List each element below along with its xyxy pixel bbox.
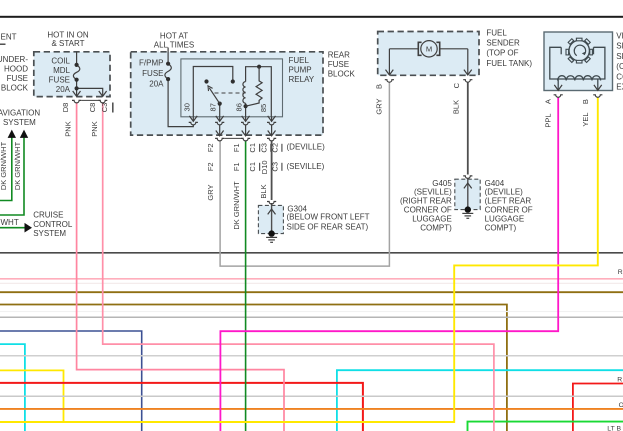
- svg-text:SE: SE: [616, 42, 623, 51]
- wire: green right corner: [468, 422, 623, 431]
- f/pmp fuse 20A: [165, 48, 193, 127]
- svg-text:20A: 20A: [149, 80, 164, 89]
- svg-text:COIL: COIL: [51, 57, 70, 66]
- relay coil pin 86: [245, 103, 247, 117]
- svg-text:O: O: [619, 402, 623, 409]
- svg-text:C3: C3: [271, 162, 280, 172]
- svg-text:M: M: [426, 45, 432, 54]
- svg-text:(SEVILLE): (SEVILLE): [287, 162, 325, 171]
- svg-text:EX: EX: [616, 83, 623, 92]
- svg-text:CONTROL: CONTROL: [33, 220, 73, 229]
- svg-text:C2: C2: [271, 143, 280, 153]
- wire: red bent down: [0, 383, 363, 431]
- svg-text:B: B: [581, 99, 590, 104]
- svg-text:CO: CO: [616, 72, 623, 81]
- svg-text:GRY: GRY: [375, 98, 384, 114]
- svg-text:YEL: YEL: [581, 112, 590, 126]
- svg-text:SE: SE: [616, 52, 623, 61]
- svg-text:REAR: REAR: [328, 51, 350, 60]
- svg-text:VE: VE: [616, 32, 623, 41]
- svg-text:NAVIGATION: NAVIGATION: [0, 109, 40, 118]
- svg-text:FUEL: FUEL: [486, 28, 507, 37]
- svg-text:85: 85: [259, 104, 268, 112]
- svg-text:C1: C1: [248, 162, 257, 172]
- wire PPL fuel pump A: [220, 97, 558, 431]
- svg-text:G404: G404: [485, 179, 505, 188]
- fuel pump housing and winding: [550, 47, 605, 90]
- svg-text:(DEVILLE): (DEVILLE): [287, 143, 326, 152]
- svg-text:COMPT): COMPT): [485, 223, 517, 232]
- svg-text:PPL: PPL: [543, 113, 552, 127]
- svg-text:COMPT): COMPT): [420, 223, 452, 232]
- svg-text:PUMP: PUMP: [289, 66, 312, 75]
- svg-text:86: 86: [235, 103, 244, 111]
- svg-text:UNDER-: UNDER-: [0, 55, 28, 64]
- connector bars next to labels: [260, 144, 282, 171]
- fuel pump module solid box: [544, 32, 613, 91]
- wire: red right corner: [573, 384, 623, 431]
- wire BLK fuel sender C to G405: [467, 82, 469, 174]
- svg-text:PNK: PNK: [90, 121, 99, 136]
- wire BLK relay 85 to G304: [271, 141, 273, 201]
- svg-text:G405: G405: [432, 179, 452, 188]
- wire DK GRN/WHT to navigation left: [0, 138, 12, 201]
- wire BLK G304 into ground box: [271, 203, 273, 234]
- svg-text:A: A: [543, 99, 552, 104]
- cruise control arrow: [25, 223, 33, 233]
- fuel pump relay inner box: [181, 59, 283, 117]
- svg-text:(SEVILLE): (SEVILLE): [414, 188, 452, 197]
- svg-text:(BELOW FRONT LEFT: (BELOW FRONT LEFT: [287, 212, 370, 221]
- relay switch arm pin 87: [219, 104, 221, 117]
- svg-text:DK GRN/WHT: DK GRN/WHT: [0, 141, 8, 190]
- svg-text:BLOCK: BLOCK: [328, 70, 356, 79]
- svg-text:BLK: BLK: [451, 100, 460, 114]
- fuel sender motor symbol: [421, 41, 437, 57]
- svg-text:CORNER OF: CORNER OF: [485, 206, 533, 215]
- ground G405 dashed box: [455, 179, 480, 209]
- svg-text:C3: C3: [259, 143, 268, 153]
- svg-text:B: B: [375, 84, 384, 89]
- svg-text:(RIGHT REAR: (RIGHT REAR: [400, 197, 452, 206]
- svg-text:ENT: ENT: [1, 33, 17, 42]
- svg-text:PNK: PNK: [64, 121, 73, 136]
- svg-text:LUGGAGE: LUGGAGE: [412, 214, 452, 223]
- svg-text:FUEL TANK): FUEL TANK): [486, 59, 532, 68]
- svg-text:& START: & START: [51, 39, 84, 48]
- wire YEL fuel pump B: [0, 97, 598, 422]
- wire: yellow short bent down: [0, 370, 64, 422]
- rear fuse block box: [131, 52, 323, 135]
- svg-text:(LEFT REAR: (LEFT REAR: [485, 197, 532, 206]
- wire: cyan right bent down: [337, 370, 623, 431]
- svg-text:C3: C3: [100, 103, 109, 113]
- connector bumps D8 C8: [72, 100, 81, 103]
- svg-text:F2: F2: [206, 143, 215, 152]
- svg-text:C1: C1: [248, 143, 257, 153]
- svg-text:BLOCK: BLOCK: [1, 84, 29, 93]
- svg-text:FUEL: FUEL: [289, 56, 310, 65]
- svg-text:SIDE OF REAR SEAT): SIDE OF REAR SEAT): [287, 222, 369, 231]
- svg-text:F1: F1: [232, 143, 241, 152]
- svg-text:(DEVILLE): (DEVILLE): [485, 188, 524, 197]
- navigation arrows: [8, 130, 16, 138]
- fuel pump gear symbol: [566, 38, 592, 63]
- svg-text:20A: 20A: [56, 85, 71, 94]
- svg-text:RELAY: RELAY: [289, 75, 315, 84]
- svg-text:LT B: LT B: [607, 425, 621, 431]
- svg-text:DK GRN/WHT: DK GRN/WHT: [13, 141, 22, 190]
- svg-text:F2: F2: [206, 162, 215, 171]
- wire: orange horizontal full width: [0, 408, 623, 410]
- svg-text:SYSTEM: SYSTEM: [3, 118, 36, 127]
- wire BLK G405 into ground box: [467, 179, 469, 210]
- svg-text:GRY: GRY: [206, 184, 215, 200]
- wire PNK from coil fuse C8: [103, 103, 494, 431]
- svg-text:ALL TIMES: ALL TIMES: [154, 41, 194, 50]
- svg-text:MDL: MDL: [53, 66, 70, 75]
- wire: faint white horizontal 311: [0, 311, 623, 313]
- svg-text:87: 87: [209, 103, 218, 111]
- svg-text:R: R: [617, 376, 622, 383]
- svg-text:DK GRN/WHT: DK GRN/WHT: [232, 181, 241, 230]
- relay dashed link arm to coil: [215, 92, 246, 94]
- svg-text:D8: D8: [61, 103, 70, 113]
- wire WHT to cruise control: [0, 227, 25, 229]
- wire: dark gray horizontal full width: [0, 252, 623, 254]
- svg-text:CRUISE: CRUISE: [33, 211, 63, 220]
- wire: cyan left bent down: [0, 344, 25, 431]
- svg-text:FUSE: FUSE: [49, 76, 70, 85]
- svg-text:FUSE: FUSE: [142, 69, 163, 78]
- svg-text:(C: (C: [616, 62, 623, 71]
- wire: gray horizontal 396: [0, 395, 623, 397]
- relay resistor: [246, 67, 263, 107]
- wire: gray horizontal 317: [0, 316, 623, 318]
- ground G304 dashed box: [258, 205, 283, 233]
- relay pin arrows and bumps inside rear fuse block: [192, 117, 194, 121]
- svg-text:SYSTEM: SYSTEM: [33, 229, 66, 238]
- wires to rear fuse block exits: [219, 125, 221, 136]
- wire GRY relay 87 to fuel sender B: [220, 82, 389, 266]
- wire: gray horizontal 356: [0, 355, 623, 357]
- wire DK GRN/WHT to navigation right: [0, 138, 24, 216]
- relay pin 30 internal: [193, 67, 233, 117]
- wire: pink horizontal full width: [0, 278, 623, 280]
- under-hood fuse block box: [34, 52, 110, 97]
- wire: faint white horizontal 283: [0, 282, 623, 284]
- wire DK GRN/WHT relay 86 down: [245, 141, 247, 431]
- ground G304 symbol: [267, 202, 276, 205]
- svg-text:D10: D10: [260, 160, 269, 174]
- svg-text:30: 30: [182, 103, 191, 111]
- wire: dark yellow bent down at right: [0, 305, 507, 431]
- fuel sender dashed box: [378, 32, 479, 76]
- top border line: [0, 16, 623, 18]
- svg-text:F1: F1: [232, 162, 241, 171]
- svg-text:HOT AT: HOT AT: [160, 32, 188, 41]
- svg-text:LUGGAGE: LUGGAGE: [485, 214, 525, 223]
- svg-text:F/PMP: F/PMP: [139, 59, 163, 68]
- svg-text:(TOP OF: (TOP OF: [486, 49, 518, 58]
- svg-text:HOOD: HOOD: [4, 65, 28, 74]
- svg-text:FUSE: FUSE: [328, 60, 349, 69]
- wire: dark blue bent down: [0, 331, 142, 431]
- coil mdl fuse 20A: [73, 52, 102, 96]
- svg-text:R: R: [618, 269, 623, 276]
- ground G405 symbol: [463, 176, 472, 179]
- svg-text:C8: C8: [88, 103, 97, 113]
- wire: dark yellow horizontal full width: [0, 291, 623, 293]
- svg-text:SENDER: SENDER: [486, 39, 520, 48]
- small dash under ENT: [0, 43, 6, 45]
- svg-text:CORNER OF: CORNER OF: [404, 206, 452, 215]
- svg-text:C: C: [452, 82, 461, 88]
- svg-text:BLK: BLK: [259, 184, 268, 198]
- svg-text:FUSE: FUSE: [7, 74, 28, 83]
- svg-text:WHT: WHT: [1, 218, 19, 227]
- wire PNK from coil fuse D8: [77, 103, 284, 431]
